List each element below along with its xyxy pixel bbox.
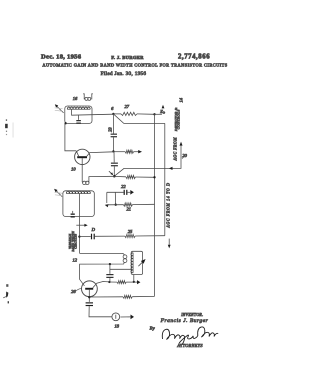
svg-text:AGC FROM: AGC FROM (173, 137, 177, 162)
svg-text:18: 18 (115, 324, 120, 329)
emitter wire to node Y (89, 175, 115, 177)
margin speck group 1 (5, 124, 8, 128)
resistor emitter-bus (114, 175, 126, 177)
svg-text:CIRCUITS: CIRCUITS (74, 234, 78, 249)
wire from node 6 diagonal to rail B (113, 114, 164, 124)
capacitor 22 (124, 190, 125, 195)
box 3 tap lead (110, 268, 132, 270)
svg-text:25: 25 (128, 229, 133, 234)
AGC output down arrow (168, 239, 170, 245)
branch wire y192 (107, 191, 124, 193)
box 3 winding (131, 253, 133, 273)
svg-text:CONTROLS: CONTROLS (177, 109, 181, 129)
transistor 10 (75, 149, 90, 164)
wire to osc coil top (80, 253, 125, 255)
svg-text:2,774,866: 2,774,866 (178, 53, 210, 60)
svg-text:Francis J. Burger: Francis J. Burger (160, 318, 209, 324)
node bus A top (153, 113, 155, 115)
oscillator flow arrow to D (76, 224, 84, 226)
tuning arrow transformer 18 (56, 190, 63, 196)
svg-text:AUTOMATIC GAIN AND BAND WIDTH: AUTOMATIC GAIN AND BAND WIDTH CONTROL FO… (42, 62, 227, 67)
svg-text:26: 26 (71, 289, 76, 294)
stub down to wire y204.7 with arrow (106, 192, 108, 203)
svg-text:b: b (163, 111, 165, 115)
transformer 18 winding (66, 191, 90, 193)
svg-text:10: 10 (71, 167, 76, 172)
pickup loop glyph above transformer 16 (83, 94, 93, 100)
transformer 18 shield box (63, 191, 94, 217)
svg-text:D: D (91, 227, 96, 232)
svg-text:16: 16 (73, 96, 78, 101)
svg-text:F. J. BURGER: F. J. BURGER (111, 55, 144, 60)
tank capacitor stub (109, 263, 111, 265)
wire box1 left down to base (65, 123, 76, 150)
Eb supply stub (155, 113, 162, 115)
svg-text:14: 14 (178, 97, 183, 102)
stub from cap wire down to resistor wire (114, 192, 116, 204)
transformer 16 shield box (65, 106, 92, 123)
tuning arrow, transformer 16 (56, 106, 63, 113)
capacitor below collector node (113, 151, 115, 162)
resistor 27 (113, 113, 121, 115)
svg-text:By: By (150, 326, 156, 331)
wire y236 with capacitor and resistor 25 (79, 236, 90, 238)
svg-text:27: 27 (125, 104, 130, 109)
resistor on collector output (113, 151, 125, 153)
box 3 bottom lead (133, 275, 135, 282)
signature (162, 327, 218, 345)
node 6 (112, 113, 114, 115)
node on collector wire (112, 150, 114, 152)
svg-text:23: 23 (108, 127, 113, 132)
svg-text:INVENTOR.: INVENTOR. (180, 313, 203, 317)
AGC lead from detector 14 (114, 146, 181, 177)
svg-text:6: 6 (111, 106, 114, 111)
osc coil loops (123, 255, 127, 259)
rail B right side (164, 123, 166, 235)
transformer 18 center lead down (79, 194, 81, 254)
resistor 21 (107, 204, 124, 206)
svg-text:AGC FROM 14 TO D: AGC FROM 14 TO D (167, 182, 171, 228)
wire osc coil bottom, to T2 base (80, 262, 125, 286)
node dot on line at y236.6 (78, 235, 80, 237)
T2 collector (93, 282, 110, 288)
transformer 16 inner leads (72, 109, 114, 115)
bus A vertical (154, 114, 156, 296)
margin speck group 2 (6, 292, 8, 298)
box 3 (osc transformer) (131, 251, 142, 274)
svg-text:Dec. 18, 1956: Dec. 18, 1956 (41, 53, 82, 60)
box 3 tuning arrow (138, 262, 142, 266)
transformer 16 winding (67, 107, 90, 109)
resistor emitter to bus (89, 296, 123, 298)
flow arrowhead into node Y (109, 171, 112, 174)
svg-text:ATTORNEYS: ATTORNEYS (176, 343, 203, 348)
transistor 26 (82, 281, 98, 297)
capacitor in transformer 18 (72, 211, 74, 213)
svg-text:12: 12 (72, 258, 77, 263)
capacitor in transformer 16 (78, 115, 80, 120)
capacitor 23 (112, 114, 114, 134)
svg-text:21: 21 (126, 206, 131, 211)
emitter capacitor (86, 302, 93, 303)
svg-text:22: 22 (121, 184, 126, 189)
meter 19 (112, 313, 120, 321)
resistor on collector (109, 281, 117, 283)
emitter coil loops (83, 181, 86, 184)
T2 emitter (88, 290, 90, 302)
svg-text:Filed Jan. 30, 1956: Filed Jan. 30, 1956 (101, 71, 147, 77)
node Y emitter junction (113, 175, 116, 178)
AGC flow arrowhead (169, 167, 173, 170)
node dot box1 bottom-left (64, 122, 66, 124)
